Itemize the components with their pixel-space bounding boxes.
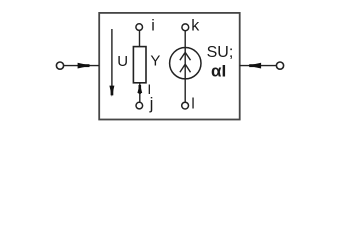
svg-text:αI: αI (211, 61, 226, 80)
svg-text:k: k (191, 18, 200, 35)
svg-text:i: i (151, 18, 155, 35)
svg-text:j: j (149, 94, 154, 113)
svg-text:Y: Y (150, 53, 160, 70)
svg-text:I: I (147, 81, 151, 97)
svg-text:l: l (191, 96, 194, 113)
svg-text:SU;: SU; (207, 44, 234, 61)
svg-text:U: U (117, 53, 128, 70)
